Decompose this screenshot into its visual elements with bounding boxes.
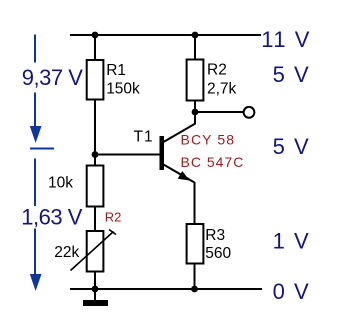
svg-text:R2: R2 (207, 62, 227, 79)
svg-text:R1: R1 (106, 62, 126, 79)
svg-text:5 V: 5 V (273, 62, 311, 87)
svg-text:BC 547C: BC 547C (181, 154, 245, 170)
svg-text:10k: 10k (48, 175, 73, 192)
svg-text:2,7k: 2,7k (207, 80, 237, 97)
svg-text:R3: R3 (205, 227, 225, 244)
svg-text:22k: 22k (54, 244, 79, 261)
svg-text:150k: 150k (106, 80, 140, 97)
svg-text:0 V: 0 V (273, 279, 311, 304)
svg-text:R2: R2 (105, 210, 122, 225)
svg-text:1,63 V: 1,63 V (21, 205, 82, 230)
svg-text:1 V: 1 V (273, 229, 311, 254)
svg-text:BCY 58: BCY 58 (181, 132, 236, 148)
svg-text:560: 560 (205, 245, 231, 262)
svg-text:11 V: 11 V (261, 27, 311, 52)
svg-text:5 V: 5 V (273, 134, 311, 159)
svg-text:9,37 V: 9,37 V (22, 65, 83, 90)
svg-text:T1: T1 (134, 128, 154, 145)
